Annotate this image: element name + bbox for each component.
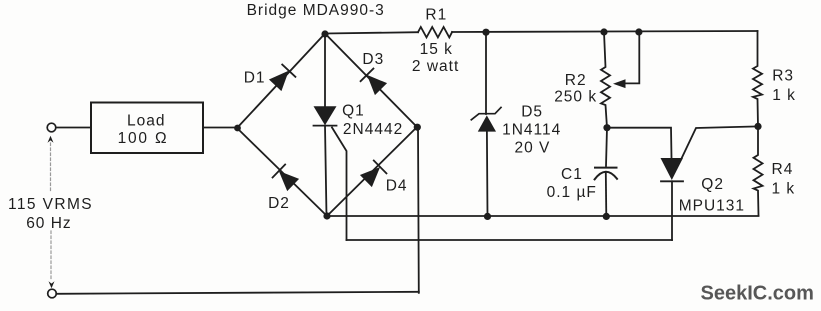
svg-text:R4: R4 [772, 161, 794, 178]
SCR Q1 [314, 106, 337, 125]
svg-text:100 Ω: 100 Ω [118, 130, 169, 147]
SCR Q1 anode wire [324, 34, 326, 107]
svg-text:60 Hz: 60 Hz [26, 215, 71, 232]
svg-text:D5: D5 [521, 103, 543, 120]
svg-text:1 k: 1 k [772, 87, 796, 104]
svg-text:SeekIC.com: SeekIC.com [701, 283, 814, 305]
svg-text:R2: R2 [565, 72, 587, 89]
zener diode D5 [478, 115, 496, 131]
junction R2 wiper top [635, 28, 642, 35]
diode D1 [269, 65, 296, 92]
svg-text:Load: Load [127, 112, 165, 129]
wire bridge arm left-top [237, 34, 325, 129]
svg-text:20 V: 20 V [515, 140, 551, 157]
svg-text:1 k: 1 k [772, 181, 796, 198]
svg-text:R1: R1 [425, 7, 447, 24]
SCR Q1 gate wire [332, 128, 347, 241]
wire bridge arm bottom-right [327, 127, 417, 216]
wire D5 branch bottom [486, 132, 489, 217]
svg-text:D2: D2 [268, 195, 290, 212]
wire bottom dc bus [327, 215, 759, 217]
junction R2 bottom node [603, 124, 610, 131]
svg-text:D1: D1 [244, 70, 266, 87]
junction bridge left node [234, 125, 241, 132]
junction bridge bottom node [323, 212, 330, 219]
resistor R1 [418, 27, 452, 37]
potentiometer R2 wiper [625, 32, 639, 83]
svg-text:D4: D4 [386, 178, 408, 195]
wire bridge arm top-right [325, 34, 417, 128]
wire bridge right node down [417, 127, 420, 293]
wire top terminal to load [56, 127, 91, 129]
source annotation dashed line lower [50, 231, 52, 281]
junction C1 bus [603, 213, 610, 220]
wire load to bridge left node [203, 127, 237, 129]
PUT Q2 gate wire [681, 126, 758, 159]
PUT Q2 cathode wire [671, 181, 673, 240]
junction D5 bus [484, 213, 491, 220]
terminal T2 (bottom AC input) [48, 289, 57, 298]
svg-text:Q2: Q2 [701, 176, 724, 193]
PUT Q2 [661, 158, 684, 180]
svg-text:MPU131: MPU131 [679, 198, 745, 215]
load box [91, 103, 203, 154]
wire R1 to top right corner [452, 31, 757, 32]
junction R2 top [600, 28, 607, 35]
capacitor C1 top wire [606, 128, 607, 166]
wire bottom return [56, 292, 419, 294]
svg-text:1N4114: 1N4114 [502, 121, 561, 138]
capacitor C1 bottom wire [605, 173, 608, 217]
source annotation arrow up [48, 136, 54, 143]
svg-text:Q1: Q1 [342, 103, 365, 120]
svg-text:R3: R3 [772, 67, 794, 84]
diode D3 [361, 69, 388, 96]
junction R1 to D5 [482, 29, 489, 36]
potentiometer R2 [601, 32, 610, 128]
svg-text:D3: D3 [362, 51, 384, 68]
junction bridge top node [321, 30, 328, 37]
svg-text:0.1 µF: 0.1 µF [547, 184, 597, 201]
svg-text:250 k: 250 k [554, 89, 597, 106]
resistor R3 [753, 31, 762, 126]
resistor R4 [754, 126, 763, 215]
junction R3 R4 node [754, 123, 761, 130]
source annotation dashed line upper [50, 143, 52, 193]
wire R2 bottom to Q2 anode [607, 128, 672, 158]
wire bridge arm left-bottom [237, 128, 327, 216]
svg-text:115 VRMS: 115 VRMS [8, 196, 93, 213]
svg-text:2 watt: 2 watt [412, 58, 459, 75]
diode D2 [273, 165, 300, 192]
diode D4 [360, 161, 387, 188]
source annotation arrow down [49, 281, 55, 288]
capacitor C1 [595, 167, 617, 169]
terminal T1 (top AC input) [47, 123, 56, 132]
svg-text:Bridge MDA990-3: Bridge MDA990-3 [247, 2, 385, 19]
svg-text:15 k: 15 k [420, 41, 453, 58]
svg-text:C1: C1 [561, 166, 583, 183]
junction bridge right node [414, 124, 421, 131]
wire gate pulse line [347, 239, 673, 241]
wire D5 branch top [485, 32, 487, 114]
wire top node to R1 [325, 32, 418, 33]
SCR Q1 cathode wire [325, 126, 327, 216]
svg-text:2N4442: 2N4442 [343, 121, 403, 138]
